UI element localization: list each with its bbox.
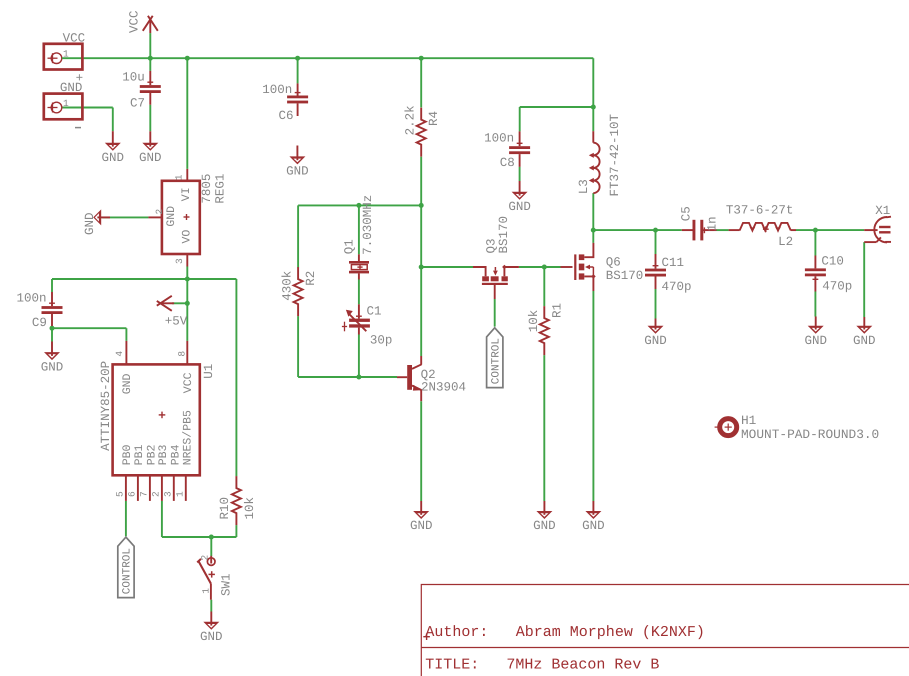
svg-text:5: 5 — [114, 491, 125, 497]
svg-text:GND: GND — [200, 630, 223, 644]
svg-text:GND: GND — [508, 200, 531, 214]
svg-text:30p: 30p — [370, 334, 393, 348]
svg-text:4: 4 — [114, 351, 125, 357]
svg-text:BS170: BS170 — [606, 269, 644, 283]
svg-text:L3: L3 — [577, 179, 591, 194]
svg-text:GND: GND — [121, 373, 134, 394]
svg-text:1n: 1n — [705, 216, 719, 231]
svg-text:GND: GND — [139, 151, 162, 165]
svg-text:H1: H1 — [741, 413, 757, 428]
svg-text:C1: C1 — [367, 305, 382, 319]
svg-text:NRES/PB5: NRES/PB5 — [181, 410, 194, 465]
svg-text:6: 6 — [126, 491, 137, 497]
svg-text:VO: VO — [180, 230, 193, 244]
svg-text:PB3: PB3 — [157, 444, 170, 465]
svg-text:2.2k: 2.2k — [404, 105, 418, 135]
svg-text:GND: GND — [804, 334, 827, 348]
svg-text:C10: C10 — [821, 255, 844, 269]
svg-text:REG1: REG1 — [214, 174, 228, 204]
svg-text:CONTROL: CONTROL — [490, 338, 502, 384]
svg-text:10u: 10u — [122, 70, 145, 84]
svg-text:PB1: PB1 — [133, 444, 146, 465]
svg-text:GND: GND — [410, 519, 433, 533]
svg-text:CONTROL: CONTROL — [122, 548, 134, 594]
svg-text:7.030MHz: 7.030MHz — [361, 195, 375, 255]
svg-text:1: 1 — [174, 174, 185, 180]
svg-text:GND: GND — [533, 519, 556, 533]
svg-text:ATTINY85-20P: ATTINY85-20P — [99, 361, 113, 451]
svg-text:L2: L2 — [778, 235, 793, 249]
svg-text:R1: R1 — [550, 303, 564, 318]
svg-text:7: 7 — [138, 491, 149, 497]
svg-text:GND: GND — [853, 334, 876, 348]
svg-text:470p: 470p — [822, 280, 852, 294]
svg-text:7805: 7805 — [200, 174, 214, 204]
svg-text:GND: GND — [41, 360, 64, 374]
svg-text:VI: VI — [180, 187, 193, 201]
svg-text:C11: C11 — [662, 256, 685, 270]
svg-text:T37-6-27t: T37-6-27t — [726, 204, 794, 218]
svg-text:2: 2 — [154, 209, 165, 215]
svg-text:VCC: VCC — [182, 372, 195, 393]
svg-text:GND: GND — [644, 334, 667, 348]
svg-text:VCC: VCC — [63, 32, 86, 46]
svg-text:BS170: BS170 — [497, 216, 511, 254]
svg-text:430k: 430k — [280, 271, 294, 301]
svg-text:Author:: Author: — [425, 624, 488, 641]
svg-text:2: 2 — [150, 491, 161, 497]
svg-text:GND: GND — [286, 165, 309, 179]
svg-text:SW1: SW1 — [219, 573, 233, 596]
svg-text:GND: GND — [83, 212, 97, 235]
svg-text:1: 1 — [63, 49, 69, 60]
svg-text:R2: R2 — [304, 271, 318, 286]
svg-text:Abram Morphew (K2NXF): Abram Morphew (K2NXF) — [516, 624, 705, 641]
svg-text:1: 1 — [63, 98, 69, 109]
svg-text:10k: 10k — [243, 497, 257, 520]
svg-text:+5V: +5V — [165, 315, 188, 329]
svg-text:2N3904: 2N3904 — [421, 380, 466, 394]
svg-text:C6: C6 — [279, 109, 294, 123]
svg-text:X1: X1 — [875, 204, 890, 218]
svg-text:3: 3 — [162, 491, 173, 497]
svg-text:7MHz Beacon Rev B: 7MHz Beacon Rev B — [506, 657, 659, 674]
svg-text:C7: C7 — [130, 97, 145, 111]
svg-text:1: 1 — [174, 491, 185, 497]
svg-text:Q1: Q1 — [342, 239, 356, 254]
svg-text:100n: 100n — [17, 292, 47, 306]
svg-text:Q6: Q6 — [606, 256, 621, 270]
svg-text:TITLE:: TITLE: — [425, 657, 479, 674]
svg-text:8: 8 — [176, 351, 187, 357]
svg-text:470p: 470p — [662, 280, 692, 294]
svg-text:MOUNT-PAD-ROUND3.0: MOUNT-PAD-ROUND3.0 — [741, 427, 879, 442]
svg-text:C8: C8 — [500, 156, 515, 170]
svg-text:FT37-42-10T: FT37-42-10T — [608, 113, 622, 196]
svg-text:C5: C5 — [679, 206, 693, 221]
svg-text:GND: GND — [582, 519, 605, 533]
svg-text:1: 1 — [200, 588, 211, 594]
svg-text:10k: 10k — [527, 310, 541, 333]
svg-text:100n: 100n — [262, 83, 292, 97]
svg-text:C9: C9 — [32, 316, 47, 330]
svg-text:PB0: PB0 — [121, 444, 134, 465]
svg-text:U1: U1 — [202, 364, 216, 379]
svg-text:3: 3 — [174, 258, 185, 264]
svg-text:R10: R10 — [218, 497, 232, 520]
svg-text:2: 2 — [199, 555, 210, 561]
svg-text:100n: 100n — [484, 131, 514, 145]
svg-text:R4: R4 — [427, 111, 441, 126]
svg-text:GND: GND — [165, 206, 178, 227]
svg-text:+: + — [76, 72, 84, 86]
svg-text:GND: GND — [102, 151, 125, 165]
svg-text:VCC: VCC — [127, 10, 141, 33]
